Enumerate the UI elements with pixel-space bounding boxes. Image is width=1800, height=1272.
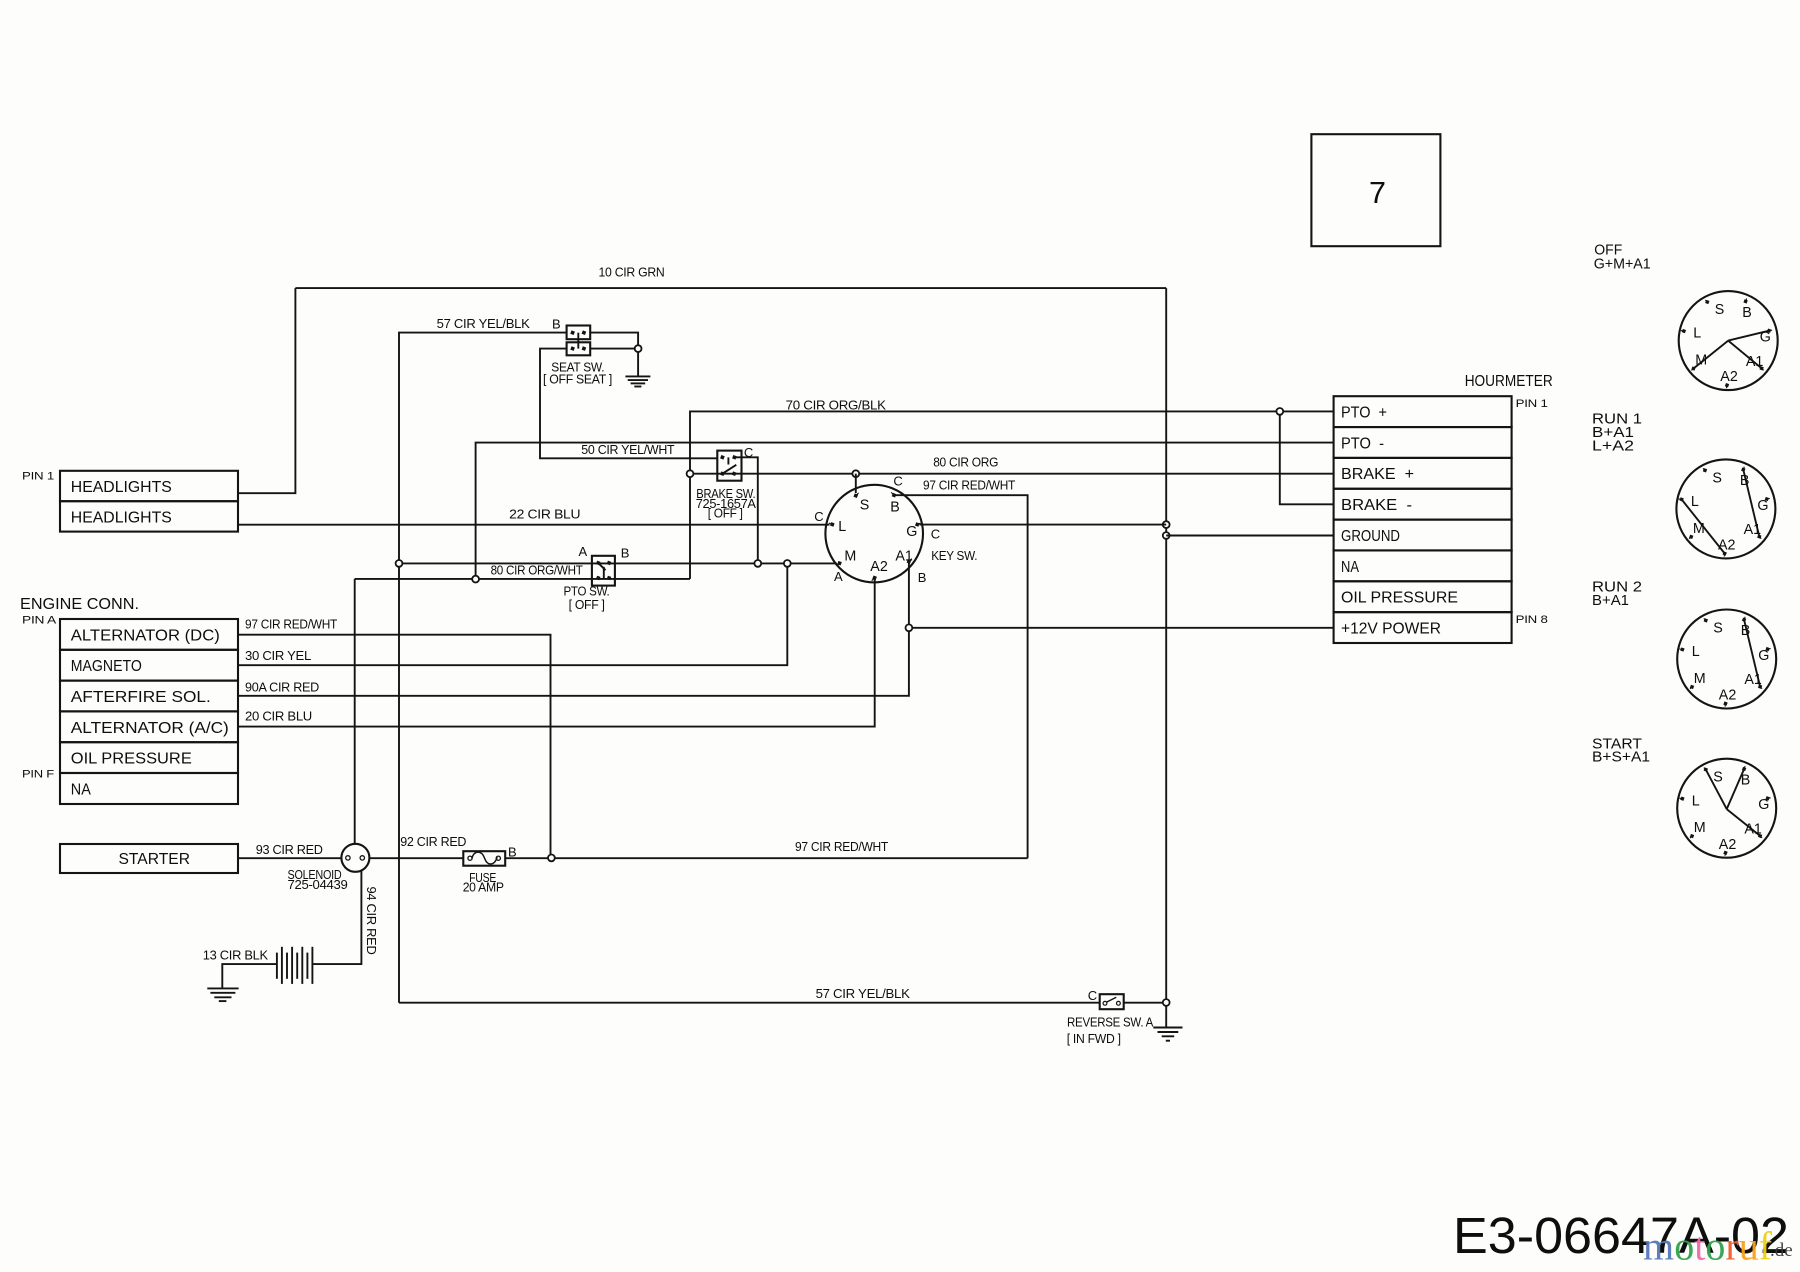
svg-text:[ OFF ]: [ OFF ] <box>708 506 743 521</box>
svg-text:PTO -: PTO - <box>1341 435 1384 452</box>
key position diagram RUN 1 <box>1676 459 1775 558</box>
node PTO+ junction <box>1276 408 1283 415</box>
svg-text:A1: A1 <box>1746 354 1764 370</box>
svg-text:70 CIR ORG/BLK: 70 CIR ORG/BLK <box>786 398 887 413</box>
svg-text:G+M+A1: G+M+A1 <box>1594 256 1651 272</box>
wire PTO minus feed <box>476 443 1334 579</box>
pin L marker <box>829 522 835 527</box>
svg-text:r: r <box>1725 1224 1738 1269</box>
wire 22 CIR BLU (headlights-2 to key L) <box>238 524 830 526</box>
wire 92 CIR RED solenoid to fuse <box>369 857 463 859</box>
svg-text:G: G <box>1758 648 1769 664</box>
svg-text:57 CIR YEL/BLK: 57 CIR YEL/BLK <box>437 316 531 331</box>
wire key S stem from brake junction <box>855 474 857 493</box>
svg-text:[ OFF SEAT ]: [ OFF SEAT ] <box>543 372 612 387</box>
svg-text:S: S <box>860 498 870 514</box>
wire 97 CIR RED/WHT fuse to key B vertical <box>505 857 1027 859</box>
svg-text:NA: NA <box>71 782 91 799</box>
svg-text:.de: .de <box>1770 1240 1793 1261</box>
ground (battery) <box>207 988 238 1001</box>
svg-text:M: M <box>1695 353 1707 369</box>
wire 94 CIR RED solenoid to battery <box>312 870 361 964</box>
wire seat sw lower-left to 50 CIR YEL/WHT <box>540 349 717 459</box>
key position diagram OFF <box>1679 291 1778 390</box>
fuse 20 AMP <box>463 851 505 866</box>
svg-text:PIN 1: PIN 1 <box>22 471 54 483</box>
svg-text:S: S <box>1713 620 1723 636</box>
svg-text:u: u <box>1739 1224 1759 1269</box>
wire +12V power from key A1 <box>909 627 1334 629</box>
svg-text:BRAKE -: BRAKE - <box>1341 497 1412 514</box>
wire 80 CIR ORG/WHT to PTO switch and key M <box>399 562 837 564</box>
svg-text:M: M <box>1693 521 1705 537</box>
ground (seat switch) <box>625 376 650 386</box>
svg-text:ALTERNATOR (A/C): ALTERNATOR (A/C) <box>71 720 229 737</box>
svg-text:A1: A1 <box>1744 821 1762 837</box>
svg-text:A: A <box>579 544 588 559</box>
svg-text:G: G <box>906 524 917 540</box>
key position diagram RUN 2 <box>1677 610 1776 709</box>
reverse switch <box>1100 994 1124 1009</box>
svg-text:10 CIR GRN: 10 CIR GRN <box>599 265 665 280</box>
svg-text:PTO +: PTO + <box>1341 405 1387 422</box>
wire PTO switch bottom row run <box>355 578 690 580</box>
svg-text:L: L <box>838 519 846 535</box>
svg-text:L+A2: L+A2 <box>1592 439 1634 455</box>
svg-text:L: L <box>1692 644 1700 660</box>
svg-text:97 CIR RED/WHT: 97 CIR RED/WHT <box>795 839 888 854</box>
svg-text:93 CIR RED: 93 CIR RED <box>256 842 323 857</box>
node ground bus / key G junction <box>1163 521 1170 528</box>
svg-text:G: G <box>1758 797 1769 813</box>
svg-text:PIN A: PIN A <box>22 615 57 627</box>
svg-text:C: C <box>893 473 902 488</box>
node M-wire brake junction <box>754 560 761 567</box>
svg-text:B: B <box>621 546 629 561</box>
seat switch <box>567 326 591 356</box>
wire 30 CIR YEL from magneto up to key M node <box>238 563 787 665</box>
wire ground bus long vertical <box>1165 288 1167 1027</box>
svg-text:A2: A2 <box>1720 369 1738 385</box>
svg-text:97 CIR RED/WHT: 97 CIR RED/WHT <box>245 617 337 632</box>
brake switch 725-1657A <box>717 451 741 481</box>
svg-text:A1: A1 <box>1744 672 1762 688</box>
pin B marker <box>891 492 896 497</box>
svg-text:80 CIR ORG: 80 CIR ORG <box>933 454 998 469</box>
svg-text:97 CIR RED/WHT: 97 CIR RED/WHT <box>923 477 1015 492</box>
svg-text:94 CIR RED: 94 CIR RED <box>364 887 379 955</box>
wire 57 CIR YEL/BLK top run + long vertical to reverse switch <box>399 333 567 1003</box>
svg-text:A1: A1 <box>1744 522 1762 538</box>
svg-text:m: m <box>1643 1224 1674 1269</box>
svg-text:L: L <box>1692 793 1700 809</box>
svg-text:S: S <box>1712 470 1722 486</box>
svg-text:NA: NA <box>1341 559 1359 576</box>
svg-text:MAGNETO: MAGNETO <box>71 658 142 675</box>
svg-text:REVERSE SW. A: REVERSE SW. A <box>1067 1015 1154 1030</box>
svg-text:PIN 1: PIN 1 <box>1516 398 1548 410</box>
wire seat sw upper-right to ground node <box>590 333 638 349</box>
svg-text:13 CIR BLK: 13 CIR BLK <box>203 947 269 962</box>
svg-text:B+S+A1: B+S+A1 <box>1592 750 1650 766</box>
solenoid 725-04439 <box>341 844 369 872</box>
svg-text:HEADLIGHTS: HEADLIGHTS <box>71 509 172 526</box>
svg-text:22 CIR BLU: 22 CIR BLU <box>509 507 580 522</box>
svg-text:M: M <box>1694 820 1706 836</box>
watermark motoruf.de <box>1643 1224 1793 1269</box>
wire solenoid top from PTO bottom run <box>354 579 356 844</box>
wire 93 CIR RED starter to solenoid <box>238 857 341 859</box>
wire reverse switch to ground bus <box>1124 1002 1167 1004</box>
svg-text:7: 7 <box>1369 176 1386 210</box>
svg-text:20 CIR BLU: 20 CIR BLU <box>245 709 312 724</box>
svg-text:M: M <box>1694 671 1706 687</box>
pin S marker <box>853 493 858 498</box>
svg-text:PIN F: PIN F <box>22 769 55 781</box>
svg-text:G: G <box>1760 330 1771 346</box>
wire 57 CIR YEL/BLK bottom run to reverse switch <box>399 1002 1100 1004</box>
svg-text:A2: A2 <box>1718 538 1736 554</box>
svg-text:30 CIR YEL: 30 CIR YEL <box>245 648 311 663</box>
svg-text:HOURMETER: HOURMETER <box>1465 373 1553 390</box>
battery <box>277 947 313 984</box>
svg-text:GROUND: GROUND <box>1341 528 1400 545</box>
svg-text:HEADLIGHTS: HEADLIGHTS <box>71 479 172 496</box>
svg-text:B: B <box>890 500 900 516</box>
svg-text:B: B <box>918 570 926 585</box>
svg-text:[ IN FWD ]: [ IN FWD ] <box>1067 1031 1121 1046</box>
svg-text:L: L <box>1693 326 1701 342</box>
headlights connector box <box>60 471 238 532</box>
pin A2 marker <box>872 575 877 580</box>
svg-text:50 CIR YEL/WHT: 50 CIR YEL/WHT <box>581 442 674 457</box>
node ground bus / hourmeter ground junction <box>1163 532 1170 539</box>
svg-text:S: S <box>1715 302 1725 318</box>
svg-text:S: S <box>1713 770 1723 786</box>
svg-text:C: C <box>1088 988 1097 1003</box>
svg-text:B: B <box>1740 473 1750 489</box>
svg-text:B+A1: B+A1 <box>1592 593 1629 609</box>
wire key G to ground bus <box>920 524 1167 526</box>
svg-text:725-04439: 725-04439 <box>288 877 348 892</box>
PTO switch <box>592 556 615 586</box>
svg-text:92 CIR RED: 92 CIR RED <box>400 834 466 849</box>
svg-text:OIL PRESSURE: OIL PRESSURE <box>71 751 192 768</box>
svg-text:o: o <box>1705 1224 1725 1269</box>
svg-text:C: C <box>814 509 823 524</box>
wire 13 CIR BLK battery to ground <box>222 964 277 988</box>
wire brake sw C terminal to key M wire <box>734 457 757 563</box>
wire 70 CIR ORG/BLK (PTO+ feed) <box>690 411 1334 579</box>
svg-text:OIL PRESSURE: OIL PRESSURE <box>1341 590 1458 607</box>
svg-text:AFTERFIRE SOL.: AFTERFIRE SOL. <box>71 689 211 706</box>
wire headlights-1 to 10 CIR GRN <box>238 288 295 493</box>
svg-text:A2: A2 <box>1719 688 1737 704</box>
svg-text:+12V POWER: +12V POWER <box>1341 621 1441 638</box>
svg-text:B: B <box>1741 623 1751 639</box>
svg-text:STARTER: STARTER <box>119 851 191 868</box>
svg-text:ALTERNATOR (DC): ALTERNATOR (DC) <box>71 627 220 644</box>
node brake out to key S junction <box>852 470 859 477</box>
svg-text:M: M <box>844 548 856 564</box>
pin A1 marker <box>907 559 912 564</box>
wire hourmeter GROUND row <box>1166 535 1333 537</box>
svg-text:BRAKE +: BRAKE + <box>1341 466 1414 483</box>
node M-wire magneto junction <box>784 560 791 567</box>
svg-text:57 CIR YEL/BLK: 57 CIR YEL/BLK <box>816 986 911 1001</box>
node 57-wire to 80 ORG/WHT junction <box>396 560 403 567</box>
pin G marker <box>915 522 921 527</box>
sheet number box 7 <box>1311 134 1440 246</box>
svg-text:20 AMP: 20 AMP <box>463 880 504 895</box>
wire 10 CIR GRN <box>295 287 1166 289</box>
svg-text:o: o <box>1674 1224 1694 1269</box>
key position diagram START <box>1677 759 1776 858</box>
ground (reverse switch) <box>1153 1028 1182 1041</box>
wire 97 CIR RED/WHT from alternator DC down to starter node <box>238 635 551 858</box>
node PTO minus junction <box>472 576 479 583</box>
wire 90A CIR RED from afterfire sol. up to key A1 <box>238 563 909 696</box>
key switch body <box>825 485 923 583</box>
svg-text:[ OFF ]: [ OFF ] <box>569 597 605 612</box>
svg-text:G: G <box>1757 498 1768 514</box>
starter box <box>60 844 238 873</box>
svg-text:C: C <box>931 526 940 541</box>
svg-text:80 CIR ORG/WHT: 80 CIR ORG/WHT <box>491 563 583 578</box>
engine connector box <box>60 619 238 804</box>
node reverse switch ground junction <box>1163 999 1170 1006</box>
svg-text:B: B <box>1742 305 1752 321</box>
svg-text:A: A <box>834 569 843 584</box>
node seat switch ground junction <box>635 345 642 352</box>
pin M marker <box>837 561 842 566</box>
hourmeter connector box <box>1334 396 1512 643</box>
wire 20 CIR BLU from alternator A/C up to key A2 <box>238 580 875 727</box>
wire PTO+ to BRAKE- link <box>1280 411 1334 504</box>
svg-text:L: L <box>1691 494 1699 510</box>
svg-text:KEY SW.: KEY SW. <box>931 548 977 563</box>
node fuse output junction <box>548 855 555 862</box>
svg-text:90A CIR RED: 90A CIR RED <box>245 679 319 694</box>
wire seat ground stem <box>637 349 639 377</box>
svg-text:A2: A2 <box>1719 837 1737 853</box>
svg-text:t: t <box>1694 1224 1705 1269</box>
wire seat sw lower-right to ground node <box>590 348 638 350</box>
svg-text:B: B <box>552 317 560 332</box>
svg-text:ENGINE CONN.: ENGINE CONN. <box>20 596 139 613</box>
svg-text:B: B <box>1741 772 1751 788</box>
svg-text:A1: A1 <box>895 548 913 564</box>
svg-text:A2: A2 <box>870 559 888 575</box>
node brake/PTO vertical junction <box>687 470 694 477</box>
wire brake bottom row to hourmeter BRAKE+ (80 CIR ORG) <box>690 473 1334 475</box>
wire key B to 97 CIR RED/WHT vertical <box>894 495 1028 858</box>
node key A1 +12V junction <box>906 624 913 631</box>
svg-text:PIN 8: PIN 8 <box>1516 614 1548 626</box>
